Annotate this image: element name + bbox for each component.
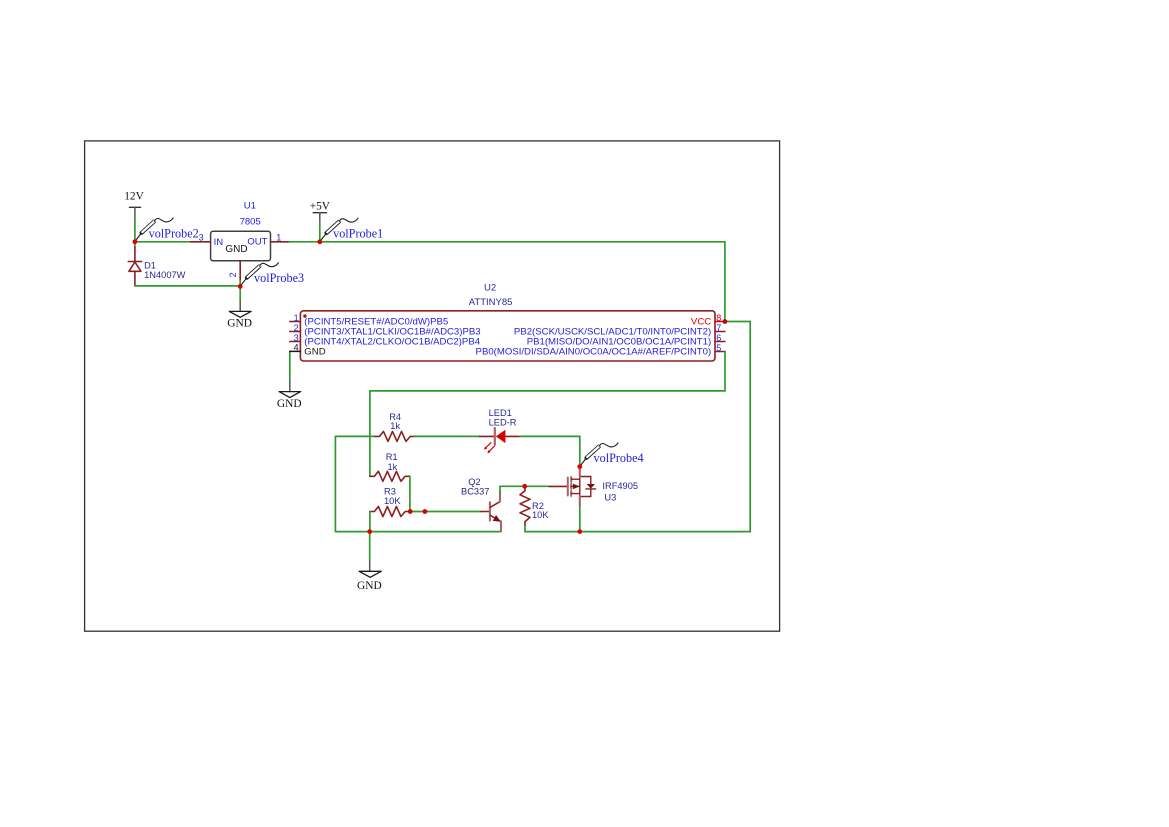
svg-text:(PCINT4/XTAL2/CLKO/OC1B/ADC2)P: (PCINT4/XTAL2/CLKO/OC1B/ADC2)PB4 [304, 337, 480, 348]
wire left loop vertical [334, 436, 336, 531]
svg-text:volProbe4: volProbe4 [594, 451, 644, 465]
svg-text:8: 8 [716, 313, 721, 323]
resistor R4 [375, 431, 415, 441]
node junction pin8 VCC [723, 319, 728, 324]
wire U3 drain down [579, 506, 581, 532]
pin 1 stub [290, 321, 301, 323]
pin 7 stub [715, 331, 725, 333]
wire pin2 to node [239, 281, 241, 287]
probe volProbe1 [320, 218, 358, 242]
probe volProbe2 [135, 218, 173, 242]
node junction probe3 [238, 284, 243, 289]
svg-text:GND: GND [304, 347, 325, 358]
svg-text:3: 3 [294, 333, 299, 343]
pin 1 stub of U1 [271, 241, 290, 243]
svg-text:PB0(MOSI/DI/SDA/AIN0/OC0A/OC1A: PB0(MOSI/DI/SDA/AIN0/OC0A/OC1A#/AREF/PCI… [476, 347, 712, 358]
regulator U1 box [211, 231, 271, 261]
power flag 12V [124, 191, 144, 217]
resistor R2 (vertical) [520, 486, 530, 526]
led light rays [484, 443, 494, 454]
svg-text:12V: 12V [124, 191, 144, 203]
svg-text:R1: R1 [386, 452, 398, 462]
pin1 marker dot [303, 314, 306, 317]
svg-text:1k: 1k [388, 462, 398, 472]
svg-text:1k: 1k [390, 421, 400, 431]
svg-text:6: 6 [716, 333, 721, 343]
wire gate node to U3 [525, 485, 550, 487]
svg-text:D1: D1 [144, 260, 156, 270]
svg-text:ATTINY85: ATTINY85 [469, 297, 513, 308]
node junction drain/rail [577, 529, 582, 534]
wire R4 to LED1 [415, 435, 480, 437]
svg-text:10K: 10K [532, 510, 549, 520]
svg-text:1: 1 [294, 313, 299, 323]
wire +5V rail [320, 241, 725, 243]
wire R1 right drop [409, 476, 411, 511]
resistor R3 [370, 507, 410, 517]
wire 12V stem [134, 217, 136, 242]
led LED1 [480, 428, 520, 453]
pin 5 stub [715, 351, 725, 353]
wire collector to gate node [500, 485, 525, 487]
svg-text:volProbe2: volProbe2 [149, 226, 199, 240]
svg-text:1N4007W: 1N4007W [144, 270, 186, 280]
svg-text:2: 2 [228, 272, 238, 277]
svg-text:BC337: BC337 [461, 486, 489, 496]
wire pin4 to GND2 [289, 351, 291, 353]
pin 3 stub [290, 341, 301, 343]
svg-text:GND: GND [225, 244, 247, 255]
wire GND3 stem [369, 532, 371, 562]
wire pin5 to R1 left [369, 391, 371, 476]
power flag +5V [310, 201, 331, 242]
ground GND1 [227, 302, 252, 330]
wire R2 bottom [524, 526, 526, 531]
node junction gate [522, 484, 527, 489]
node junction probe4 [577, 464, 582, 469]
pin 2 stub of U1 [239, 261, 241, 281]
svg-text:7: 7 [716, 323, 721, 333]
wire Q2 collector up [499, 486, 501, 491]
svg-text:+5V: +5V [310, 201, 331, 213]
diode D1 [128, 243, 141, 286]
node junction 12V/probe2 [133, 239, 138, 244]
node junction base wire [423, 509, 428, 514]
node junction +5V/probe1 [317, 239, 322, 244]
svg-text:U1: U1 [244, 200, 256, 211]
mosfet U3 IRF4905 [549, 468, 596, 506]
svg-text:volProbe1: volProbe1 [333, 226, 383, 240]
wire GND1 stem [239, 286, 241, 301]
wire right loop vertical [749, 322, 751, 532]
wire ground rail right [525, 531, 750, 533]
node junction ground rail [367, 529, 372, 534]
svg-text:IN: IN [214, 237, 224, 248]
svg-text:10K: 10K [384, 496, 401, 506]
probe volProbe3 [240, 263, 278, 287]
ground GND3 [357, 562, 382, 593]
svg-text:LED-R: LED-R [489, 417, 517, 427]
svg-text:4: 4 [294, 343, 299, 353]
wire ground rail left [335, 531, 501, 533]
resistor R1 [370, 471, 410, 481]
wire R3 to Q2 base [410, 511, 481, 513]
ground GND2 [277, 382, 302, 410]
border frame [85, 141, 780, 631]
wire pin8 to right loop [725, 321, 750, 323]
pin 8 stub [715, 321, 725, 323]
wire pin5 down [724, 352, 726, 391]
svg-text:2: 2 [294, 323, 299, 333]
svg-text:U3: U3 [604, 492, 616, 502]
svg-text:7805: 7805 [240, 217, 261, 228]
probe volProbe4 [580, 443, 618, 467]
svg-text:3: 3 [199, 232, 204, 242]
pin 4 stub [290, 350, 301, 352]
wire left loop top [335, 435, 375, 437]
wire VCC drop from +5V rail [724, 242, 726, 322]
svg-text:GND: GND [227, 317, 252, 329]
mcu U2 ATTINY85 box [300, 311, 715, 361]
svg-text:5: 5 [716, 343, 721, 353]
wire input rail to U1 pin3 [135, 241, 191, 243]
transistor Q2 BC337 [481, 492, 501, 531]
wire LED1 to MOSFET corner [520, 435, 580, 437]
wire pin1 to +5V node [289, 241, 319, 243]
wire corner down to probe4 node [579, 436, 581, 466]
wire pin5 horizontal [370, 390, 725, 392]
svg-text:GND: GND [277, 398, 302, 410]
wire R3 left drop [369, 512, 371, 532]
pin 2 stub [290, 331, 301, 333]
svg-text:OUT: OUT [247, 237, 267, 248]
svg-text:1: 1 [276, 232, 281, 242]
pin 6 stub [715, 341, 725, 343]
svg-text:volProbe3: volProbe3 [254, 271, 304, 285]
node junction R3 right [408, 509, 413, 514]
pin 3 stub of U1 [191, 241, 211, 243]
svg-text:IRF4905: IRF4905 [602, 481, 638, 491]
svg-text:U2: U2 [484, 282, 496, 293]
wire D1 bottom to U1 pin2 [135, 285, 240, 287]
svg-text:GND: GND [357, 580, 382, 592]
